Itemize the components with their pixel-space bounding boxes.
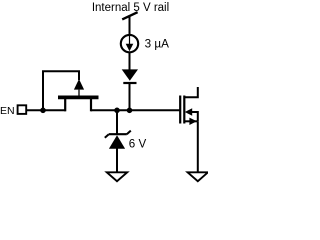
- diode D1: [122, 69, 138, 83]
- channel bar: [58, 96, 99, 100]
- current source I1: [121, 35, 138, 52]
- ground (under M1 source): [188, 172, 208, 181]
- drain stub: [184, 87, 198, 97]
- node: zener junction dot: [114, 108, 120, 114]
- svg-text:3 µA: 3 µA: [145, 37, 169, 50]
- drain lead: [90, 98, 92, 112]
- gate plate: [179, 96, 181, 124]
- svg-text:6 V: 6 V: [129, 138, 147, 151]
- wire: current source to diode: [129, 53, 131, 71]
- zener diode D2: [105, 131, 131, 149]
- wire: zener anode to ground: [116, 149, 118, 173]
- wire: diode to gate node: [129, 83, 131, 110]
- EN input terminal: [18, 105, 27, 114]
- node: EN junction dot: [40, 108, 46, 114]
- wire: rail to current source: [129, 15, 131, 35]
- source lead: [64, 98, 66, 112]
- gate feedback wire: [43, 71, 79, 110]
- body stub with arrow: [185, 108, 192, 115]
- node: main column junction dot: [127, 108, 133, 114]
- svg-text:EN: EN: [0, 105, 15, 117]
- transistor M1 (NMOS pass FET): [180, 87, 198, 125]
- source stub with arrow: [184, 120, 198, 122]
- transistor Q1 (JFET, gate tied to EN): [43, 71, 99, 111]
- channel plate: [183, 96, 185, 124]
- wire: node to zener cathode: [116, 110, 118, 134]
- wire: EN terminal to Q1 source: [27, 109, 66, 111]
- svg-text:Internal 5 V rail: Internal 5 V rail: [92, 2, 169, 14]
- gate arrow: [74, 79, 84, 90]
- wire: M1 source to ground: [197, 121, 199, 172]
- power rail symbol: [122, 12, 137, 19]
- wire: Q1 drain to gate node of M1: [91, 109, 181, 111]
- ground (under zener): [107, 172, 127, 181]
